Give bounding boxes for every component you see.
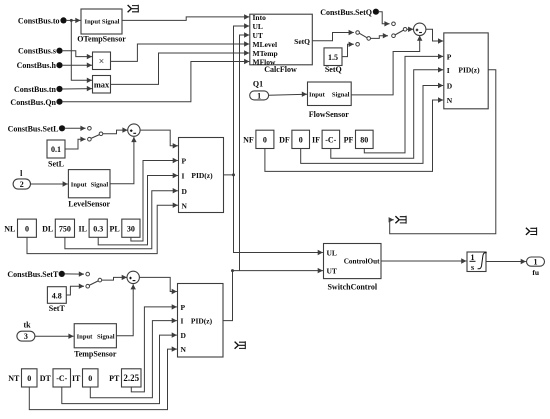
PID controller U1 (flow) PID(z) bbox=[444, 33, 488, 109]
max block bbox=[93, 76, 111, 94]
junction level PID output bbox=[232, 173, 235, 176]
wire tk to TempSensor bbox=[35, 334, 74, 339]
svg-text:NT: NT bbox=[8, 374, 20, 383]
svg-text:Input: Input bbox=[71, 181, 88, 188]
constant IL 0.3 bbox=[79, 219, 108, 237]
svg-text:Signal: Signal bbox=[97, 333, 115, 340]
svg-text:0: 0 bbox=[88, 374, 92, 383]
svg-text:IL: IL bbox=[79, 224, 87, 233]
svg-text:ConstBus.SetL: ConstBus.SetL bbox=[8, 124, 59, 133]
sum block (temp error) bbox=[127, 271, 139, 283]
goto tag (top left) bbox=[128, 5, 139, 13]
svg-text:750: 750 bbox=[59, 224, 71, 233]
svg-text:ConstBus.SetQ: ConstBus.SetQ bbox=[320, 8, 372, 17]
constant PL 30 bbox=[109, 219, 140, 237]
constant DT -C- bbox=[40, 369, 71, 387]
constant IF -C- bbox=[312, 130, 340, 148]
svg-text:PF: PF bbox=[344, 136, 354, 145]
svg-text:2.25: 2.25 bbox=[123, 373, 139, 383]
constant PF 80 bbox=[344, 130, 373, 148]
integrator 1/s with saturation bbox=[467, 252, 487, 272]
svg-text:Signal: Signal bbox=[91, 181, 109, 188]
wire temp PID output to SwitchControl UT bbox=[223, 268, 323, 321]
svg-text:I: I bbox=[182, 172, 185, 181]
wire UL feedback riser to CalcFlow UL bbox=[234, 23, 250, 175]
svg-text:CalcFlow: CalcFlow bbox=[264, 65, 297, 74]
svg-text:0.1: 0.1 bbox=[51, 145, 61, 154]
wire ConstBus.Qn to CalcFlow MFlow bbox=[62, 59, 249, 102]
svg-text:0.3: 0.3 bbox=[93, 224, 103, 233]
svg-text:DL: DL bbox=[42, 224, 53, 233]
svg-text:DT: DT bbox=[40, 374, 52, 383]
wire PT to temp PID P bbox=[131, 304, 177, 392]
wire ConstBus.to to OTempSensor input bbox=[66, 18, 81, 23]
wire FlowSensor signal up to flow sum minus bbox=[351, 36, 422, 95]
input port l bbox=[13, 169, 30, 189]
subsystem FlowSensor bbox=[308, 82, 352, 119]
svg-text:I: I bbox=[181, 317, 184, 326]
svg-text:Into: Into bbox=[253, 13, 267, 22]
manual switch (temp setpoint) bbox=[86, 272, 102, 288]
wire flow sum to PID top input bbox=[426, 29, 443, 43]
wire UT feedback riser to CalcFlow UT bbox=[240, 32, 250, 270]
svg-text:SetQ: SetQ bbox=[294, 37, 310, 46]
wire ConstBus.SetQ to manual switch 2 bbox=[378, 12, 389, 27]
constant DF 0 bbox=[279, 130, 309, 148]
svg-text:N: N bbox=[181, 345, 187, 354]
svg-text:UT: UT bbox=[253, 31, 263, 40]
svg-text:FlowSensor: FlowSensor bbox=[309, 110, 349, 119]
svg-text:SwitchControl: SwitchControl bbox=[327, 282, 377, 291]
subsystem CalcFlow bbox=[250, 13, 312, 74]
constant PT 2.25 bbox=[109, 369, 141, 387]
subsystem SwitchControl bbox=[324, 244, 382, 292]
wire LevelSensor signal up to level sum minus bbox=[110, 137, 137, 184]
wire IF to flow PID I bbox=[331, 67, 443, 158]
svg-text:ControlOut: ControlOut bbox=[344, 258, 380, 266]
svg-text:0: 0 bbox=[299, 136, 303, 145]
wire OTempSensor signal to CalcFlow Into bbox=[122, 14, 249, 20]
wire manual switch 2 to flow sum bbox=[407, 27, 413, 32]
svg-text:1: 1 bbox=[257, 91, 261, 100]
constant NT 0 bbox=[8, 369, 37, 387]
node ConstBus.SetQ bbox=[320, 8, 379, 17]
manual switch 2 (flow setpoint) bbox=[392, 22, 407, 38]
svg-text:max: max bbox=[94, 80, 110, 89]
goto tag (bottom standalone) bbox=[235, 341, 246, 349]
node ConstBus.h bbox=[17, 61, 63, 70]
wire TempSensor signal up to temp sum minus bbox=[116, 284, 135, 336]
goto tag (control out u) bbox=[395, 216, 406, 224]
svg-text:PT: PT bbox=[109, 374, 120, 383]
svg-text:TempSensor: TempSensor bbox=[74, 350, 117, 359]
svg-text:Signal: Signal bbox=[332, 91, 350, 98]
wire Q1 to FlowSensor bbox=[269, 92, 307, 97]
svg-text:N: N bbox=[447, 96, 453, 105]
junction temp PID output bbox=[231, 269, 234, 272]
svg-text:ConstBus.tn: ConstBus.tn bbox=[14, 85, 57, 94]
svg-text:4.8: 4.8 bbox=[52, 292, 62, 301]
svg-text:0: 0 bbox=[25, 224, 29, 233]
svg-text:D: D bbox=[447, 82, 453, 91]
svg-text:MLevel: MLevel bbox=[253, 40, 278, 49]
svg-text:IF: IF bbox=[312, 136, 320, 145]
svg-text:-C-: -C- bbox=[56, 374, 67, 383]
svg-text:0: 0 bbox=[27, 374, 31, 383]
node ConstBus.to bbox=[18, 16, 67, 25]
svg-text:P: P bbox=[181, 303, 186, 312]
subsystem TempSensor bbox=[74, 324, 117, 359]
constant NL 0 bbox=[4, 219, 36, 237]
wire level PID output to SwitchControl UL bbox=[224, 175, 323, 255]
svg-text:Q1: Q1 bbox=[253, 79, 263, 88]
svg-text:N: N bbox=[182, 201, 188, 210]
wire constant 1.5 to manual switch 1 bbox=[342, 42, 354, 57]
wire SetT 4.8 to temp switch bbox=[66, 284, 84, 296]
svg-text:ConstBus.SetT: ConstBus.SetT bbox=[7, 270, 59, 279]
wire IT to temp PID I bbox=[90, 318, 177, 398]
svg-text:PID(z): PID(z) bbox=[191, 171, 213, 180]
sum block (flow error) bbox=[414, 23, 426, 35]
svg-text:PID(z): PID(z) bbox=[458, 66, 480, 75]
svg-text:0: 0 bbox=[263, 136, 267, 145]
node ConstBus.SetT bbox=[7, 270, 65, 279]
junction on ConstBus.to wire bbox=[70, 19, 73, 22]
svg-text:×: × bbox=[99, 56, 105, 67]
goto tag (right standalone) bbox=[526, 227, 537, 235]
PID controller U2 (level) PID(z) bbox=[179, 138, 224, 213]
svg-text:s: s bbox=[471, 263, 474, 272]
svg-text:ConstBus.h: ConstBus.h bbox=[17, 61, 57, 70]
svg-text:LevelSensor: LevelSensor bbox=[68, 200, 110, 209]
svg-text:D: D bbox=[182, 187, 188, 196]
wire flow PID output to goto bbox=[389, 70, 496, 234]
svg-text:OTempSensor: OTempSensor bbox=[77, 35, 126, 44]
svg-text:SetT: SetT bbox=[49, 304, 66, 313]
wire temp switch to temp sum bbox=[102, 275, 127, 280]
svg-text:Input: Input bbox=[309, 91, 326, 98]
svg-text:PL: PL bbox=[109, 224, 119, 233]
constant SetL 0.1 bbox=[47, 140, 65, 169]
svg-text:NF: NF bbox=[243, 136, 254, 145]
wire NL to level PID N bbox=[27, 203, 178, 254]
svg-text:IT: IT bbox=[72, 374, 81, 383]
svg-text:P: P bbox=[447, 53, 452, 62]
wire manual switch 1 to manual switch 2 bbox=[371, 33, 389, 38]
wire DL to level PID D bbox=[65, 188, 178, 249]
svg-text:1: 1 bbox=[534, 258, 538, 267]
svg-text:tk: tk bbox=[23, 320, 31, 329]
subsystem LevelSensor bbox=[68, 170, 110, 209]
svg-text:3: 3 bbox=[24, 332, 28, 341]
node ConstBus.tn bbox=[14, 85, 63, 94]
constant DL 750 bbox=[42, 219, 74, 237]
svg-text:UL: UL bbox=[327, 249, 337, 258]
svg-text:1.5: 1.5 bbox=[328, 53, 338, 62]
wire ConstBus.s to product input 1 bbox=[62, 51, 92, 60]
node ConstBus.s bbox=[18, 47, 63, 56]
wire level sum to level PID top input bbox=[140, 130, 178, 148]
svg-text:SetL: SetL bbox=[48, 160, 64, 169]
svg-text:80: 80 bbox=[360, 136, 368, 145]
wire ConstBus.h to product input 2 bbox=[62, 62, 92, 67]
node ConstBus.Qn bbox=[10, 98, 62, 107]
wire integrator to output fu bbox=[486, 259, 526, 264]
wire DF to flow PID D bbox=[301, 83, 444, 164]
svg-text:DF: DF bbox=[279, 136, 290, 145]
svg-text:P: P bbox=[182, 157, 187, 166]
svg-text:Input: Input bbox=[85, 18, 102, 25]
wire IL to level PID I bbox=[98, 173, 178, 245]
wire ConstBus.SetL to level switch bbox=[65, 126, 86, 131]
wire ControlOut to integrator bbox=[381, 258, 466, 263]
wire level switch to level sum bbox=[103, 127, 128, 133]
svg-text:ConstBus.Qn: ConstBus.Qn bbox=[10, 98, 56, 107]
svg-text:D: D bbox=[181, 331, 187, 340]
svg-text:-C-: -C- bbox=[325, 136, 336, 145]
svg-text:ConstBus.s: ConstBus.s bbox=[18, 47, 56, 56]
wire CalcFlow SetQ to manual switch 1 bbox=[312, 30, 354, 41]
node ConstBus.SetL bbox=[8, 124, 66, 133]
svg-text:Signal: Signal bbox=[102, 18, 120, 25]
wire ConstBus.to branch to max input 1 bbox=[71, 20, 92, 83]
svg-text:2: 2 bbox=[20, 180, 24, 189]
wire ConstBus.SetT to temp switch bbox=[64, 271, 84, 276]
wire SetL 0.1 to level switch bbox=[65, 137, 86, 150]
wire PF to flow PID P bbox=[364, 54, 443, 153]
wire NT to temp PID N bbox=[29, 346, 177, 409]
svg-text:PID(z): PID(z) bbox=[191, 317, 213, 326]
svg-text:ConstBus.to: ConstBus.to bbox=[18, 16, 60, 25]
subsystem OTempSensor bbox=[77, 9, 126, 44]
constant SetQ 1.5 bbox=[324, 48, 342, 74]
manual switch 1 (flow) bbox=[356, 31, 371, 46]
svg-text:UL: UL bbox=[253, 22, 263, 31]
sum block (level error) bbox=[128, 124, 140, 136]
wire ConstBus.tn to max input 2 bbox=[62, 86, 92, 91]
PID controller U3 (temp) PID(z) bbox=[178, 284, 224, 358]
wire l to LevelSensor bbox=[31, 181, 68, 186]
wire product output to CalcFlow MLevel bbox=[111, 41, 250, 61]
input port Q1 bbox=[250, 79, 269, 100]
output port fu bbox=[527, 257, 545, 277]
manual switch (level setpoint) bbox=[88, 127, 103, 142]
wire max output to CalcFlow MTemp bbox=[111, 50, 250, 84]
constant IT 0 bbox=[72, 369, 98, 387]
svg-text:fu: fu bbox=[532, 268, 539, 277]
wire PL to level PID P bbox=[131, 158, 178, 241]
svg-text:30: 30 bbox=[127, 224, 135, 233]
constant SetT 4.8 bbox=[47, 287, 66, 313]
wire DT to temp PID D bbox=[62, 332, 177, 403]
constant NF 0 bbox=[243, 130, 274, 148]
wire NF to flow PID N bbox=[265, 97, 443, 171]
svg-text:I: I bbox=[447, 66, 450, 75]
input port tk bbox=[17, 320, 35, 341]
product block x bbox=[93, 52, 111, 70]
svg-text:SetQ: SetQ bbox=[325, 65, 342, 74]
svg-text:NL: NL bbox=[4, 224, 15, 233]
svg-text:UT: UT bbox=[327, 266, 337, 275]
wire temp sum to temp PID top input bbox=[139, 277, 177, 294]
svg-text:1: 1 bbox=[471, 253, 475, 262]
svg-text:Input: Input bbox=[77, 333, 94, 340]
